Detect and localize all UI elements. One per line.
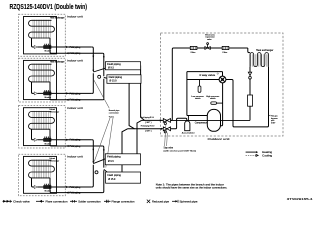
gas bus pair B (units 3-4)	[102, 146, 103, 193]
liquid flow arrow (indoor unit 4)	[66, 186, 68, 188]
indoor unit 4 casing	[24, 156, 57, 193]
sight glass on liquid drop	[249, 76, 252, 79]
liquid branch joint A	[92, 70, 94, 72]
motorised valve (indoor unit 1)	[43, 44, 51, 53]
svg-text:( 5/8" ): ( 5/8" )	[145, 130, 152, 132]
liquid pipe drop (indoor unit 4)	[32, 178, 35, 187]
svg-text:Field piping Ø 9.5: Field piping Ø 9.5	[141, 117, 155, 119]
liquid pipe drop (indoor unit 2)	[32, 82, 35, 94]
indoor unit 2 dashed enclosure	[19, 58, 66, 102]
svg-text:switch: switch	[210, 97, 216, 100]
svg-text:Field piping: Field piping	[107, 156, 121, 159]
svg-text:Field piping: Field piping	[70, 46, 81, 49]
svg-text:Ø 9.5: Ø 9.5	[108, 66, 115, 69]
svg-text:Field piping: Field piping	[70, 139, 81, 142]
svg-text:Field piping: Field piping	[70, 99, 81, 102]
discharge pipe	[219, 83, 223, 126]
motorised valve (indoor unit 3)	[43, 137, 51, 146]
heat exchanger coil (indoor unit 2)	[29, 64, 55, 82]
svg-text:indoor unit: indoor unit	[67, 155, 83, 159]
heat exchanger coil (indoor unit 3) hatching	[33, 111, 50, 130]
svg-text:Field piping: Field piping	[109, 76, 123, 79]
field piping label box pair B gas	[106, 172, 141, 183]
stop valve gas	[163, 127, 170, 133]
svg-text:Heat: Heat	[50, 157, 56, 160]
filter 2 (outdoor)	[222, 46, 229, 54]
liquid line through valve (indoor unit 3)	[37, 139, 91, 141]
pipe into outdoor heat exchanger	[248, 48, 250, 53]
svg-text:Field piping: Field piping	[70, 52, 81, 55]
svg-text:Field piping: Field piping	[70, 92, 81, 95]
filter (indoor unit 4)	[34, 185, 37, 188]
svg-text:Field piping Ø 15.9: Field piping Ø 15.9	[141, 125, 155, 127]
suction loop top	[187, 72, 223, 116]
liquid line through valve (indoor unit 4)	[37, 186, 91, 188]
liquid flow arrow (indoor unit 1)	[66, 46, 68, 48]
liquid flow arrow (indoor unit 2)	[66, 92, 68, 94]
filter (indoor unit 1)	[34, 45, 37, 48]
liquid pipe drop (indoor unit 3)	[32, 129, 35, 140]
flow arrow on gas bus A	[103, 56, 105, 58]
low pressure switch	[198, 86, 201, 92]
gas flow arrow (indoor unit 1)	[66, 52, 68, 54]
svg-text:Field piping: Field piping	[107, 174, 121, 177]
svg-text:3TW29165-4: 3TW29165-4	[287, 197, 313, 201]
filter on liquid drop	[248, 72, 251, 75]
filter (indoor unit 2)	[34, 92, 37, 95]
liquid drop from heat exchanger	[249, 67, 251, 120]
svg-text:exchanger: exchanger	[50, 111, 60, 114]
outdoor heat exchanger hatching	[251, 54, 268, 66]
field piping label box pair A gas	[107, 75, 141, 84]
gas field line to stop valve	[128, 128, 164, 130]
heat exchanger coil (indoor unit 4)	[29, 160, 55, 178]
svg-text:(with service port 5/16" flare: (with service port 5/16" flare)	[164, 149, 197, 152]
svg-text:( 3/8" ): ( 3/8" )	[145, 122, 152, 124]
accumulator stub	[187, 116, 189, 121]
heat exchanger coil (indoor unit 4) hatching	[33, 160, 50, 179]
gas pipe from coil (indoor unit 3)	[50, 129, 102, 146]
flow arrow on liquid bus A	[92, 56, 94, 58]
svg-text:Outdoor unit: Outdoor unit	[208, 137, 230, 141]
flow arrow on gas bus B	[103, 149, 105, 151]
svg-text:Heat: Heat	[50, 108, 56, 111]
capillary / strainer on liquid drop	[248, 95, 253, 106]
compressor	[207, 109, 220, 131]
liquid flow arrow (indoor unit 3)	[66, 139, 68, 141]
filter 1 (outdoor)	[190, 46, 197, 54]
legend flange connection	[104, 200, 135, 204]
indoor unit 3 casing	[24, 108, 57, 146]
liquid pipe drop (indoor unit 1)	[32, 38, 35, 47]
leader to branch joint B gas	[106, 118, 113, 168]
liquid line across (stop valve to HX drop)	[171, 119, 251, 121]
svg-text:Twins: Twins	[109, 116, 115, 118]
gas main from pair A	[129, 83, 134, 129]
heating flow legend	[246, 151, 257, 153]
svg-text:5/16": 5/16"	[271, 123, 276, 125]
svg-text:RZQS125-140DV1 (Double twin): RZQS125-140DV1 (Double twin)	[10, 4, 88, 11]
gas branch joint A	[98, 75, 101, 78]
legend solder connection	[70, 200, 101, 204]
svg-text:Field piping: Field piping	[70, 145, 81, 148]
legend check valve	[3, 200, 31, 204]
svg-text:indoor unit: indoor unit	[67, 15, 83, 19]
4-way valve	[219, 76, 226, 83]
electronic expansion valve	[205, 33, 215, 49]
svg-text:4 way valve: 4 way valve	[199, 74, 216, 77]
svg-text:Note 1: The pipes between the: Note 1: The pipes between the branch and…	[156, 184, 224, 187]
svg-text:Spinned pipe: Spinned pipe	[180, 200, 199, 204]
gas pipe stop valve to accumulator	[171, 118, 187, 129]
gas pipe from coil (indoor unit 1)	[50, 38, 102, 53]
liquid branch joint B	[92, 161, 94, 163]
liquid line through valve (indoor unit 1)	[37, 46, 91, 48]
high pressure switch	[211, 102, 217, 104]
svg-text:Field piping: Field piping	[70, 186, 81, 189]
filter (indoor unit 3)	[34, 138, 37, 141]
gas flow arrow (indoor unit 3)	[66, 145, 68, 147]
motorised valve (indoor unit 4)	[43, 184, 51, 193]
heat exchanger coil (indoor unit 3)	[29, 112, 55, 130]
motorised valve (indoor unit 2)	[43, 90, 51, 99]
svg-text:Flare connection: Flare connection	[46, 200, 69, 204]
outdoor unit dashed enclosure	[161, 33, 284, 136]
gas flow arrow at stop valve	[160, 128, 162, 130]
gas main from pair B	[122, 129, 128, 172]
liquid flow arrow at stop valve	[160, 119, 162, 121]
gas pipe from coil (indoor unit 2)	[50, 82, 102, 100]
svg-text:indoor unit: indoor unit	[67, 106, 83, 110]
svg-text:units should have the same siz: units should have the same size as the i…	[156, 187, 228, 190]
liquid bus pair B (units 3-4)	[92, 140, 94, 187]
accumulator	[185, 121, 190, 131]
svg-text:Ø 9.5: Ø 9.5	[108, 160, 115, 163]
indoor unit 4 dashed enclosure	[19, 154, 66, 196]
liquid main from pair B	[137, 120, 142, 153]
svg-text:Heat exchanger: Heat exchanger	[50, 61, 65, 64]
field piping label box pair A liquid	[105, 62, 140, 70]
stop valve liquid	[163, 119, 170, 125]
liquid line through valve (indoor unit 2)	[37, 92, 91, 94]
indoor unit 3 dashed enclosure	[19, 106, 66, 149]
stop valve note leaders	[165, 124, 168, 146]
gas flow arrow (indoor unit 4)	[66, 192, 68, 194]
svg-text:Filter: Filter	[191, 51, 196, 54]
outdoor heat exchanger coil	[250, 53, 269, 67]
gas bus pair A (units 1-2)	[102, 53, 103, 100]
heat exchanger coil (indoor unit 2) hatching	[33, 64, 50, 83]
heat exchanger coil (indoor unit 1)	[29, 20, 55, 38]
svg-text:Field piping: Field piping	[70, 192, 81, 195]
gas flow arrow (indoor unit 2)	[66, 99, 68, 101]
indoor unit 1 casing	[24, 17, 57, 54]
svg-text:Accumulator: Accumulator	[182, 132, 195, 135]
liquid bus pair A (units 1-2)	[92, 47, 94, 93]
svg-text:exchanger: exchanger	[50, 159, 60, 162]
svg-text:connection: connection	[109, 112, 120, 115]
legend flare connection	[36, 200, 68, 204]
pipe 4-way valve to heat exchanger	[226, 67, 269, 127]
svg-text:indoor unit: indoor unit	[67, 59, 83, 63]
legend reduced pipe	[147, 200, 170, 204]
indoor unit 2 casing	[24, 60, 57, 99]
svg-text:switch: switch	[195, 97, 201, 100]
legend spinned pipe	[172, 200, 198, 204]
flow arrow on liquid bus B	[92, 149, 94, 151]
svg-text:Heat exchanger: Heat exchanger	[256, 49, 274, 52]
svg-text:Reduced pipe: Reduced pipe	[152, 200, 170, 204]
svg-text:Cooling: Cooling	[262, 154, 273, 158]
svg-text:Solder connection: Solder connection	[78, 200, 101, 204]
liquid riser to EEV row	[171, 48, 248, 120]
svg-text:Ø 15.9: Ø 15.9	[109, 80, 117, 83]
leader to branch joint A	[94, 80, 110, 109]
svg-text:Heat exchanger: Heat exchanger	[50, 17, 65, 20]
liquid main from pair A	[141, 66, 145, 121]
gas branch joint B	[95, 171, 98, 174]
svg-text:Filter: Filter	[223, 51, 228, 54]
field piping label box pair B liquid	[105, 154, 140, 165]
low pressure switch stub	[199, 80, 201, 87]
svg-text:Stop valve: Stop valve	[164, 146, 174, 149]
svg-text:Ø 15.9: Ø 15.9	[108, 178, 116, 181]
indoor unit 1 dashed enclosure	[19, 14, 66, 56]
cooling flow legend	[246, 154, 257, 156]
hot gas bypass port note	[269, 115, 270, 117]
heat exchanger coil (indoor unit 1) hatching	[33, 20, 50, 39]
svg-text:Flange connection: Flange connection	[112, 200, 136, 204]
gas pipe from coil (indoor unit 4)	[50, 178, 102, 193]
liquid field line to stop valve	[142, 119, 164, 121]
leader to branch joint B liquid	[94, 118, 110, 161]
svg-text:Compressor: Compressor	[195, 121, 208, 124]
suction pipe to compressor	[187, 115, 208, 117]
svg-text:Branch pipe: Branch pipe	[109, 109, 120, 112]
svg-text:Check valve: Check valve	[13, 200, 30, 204]
